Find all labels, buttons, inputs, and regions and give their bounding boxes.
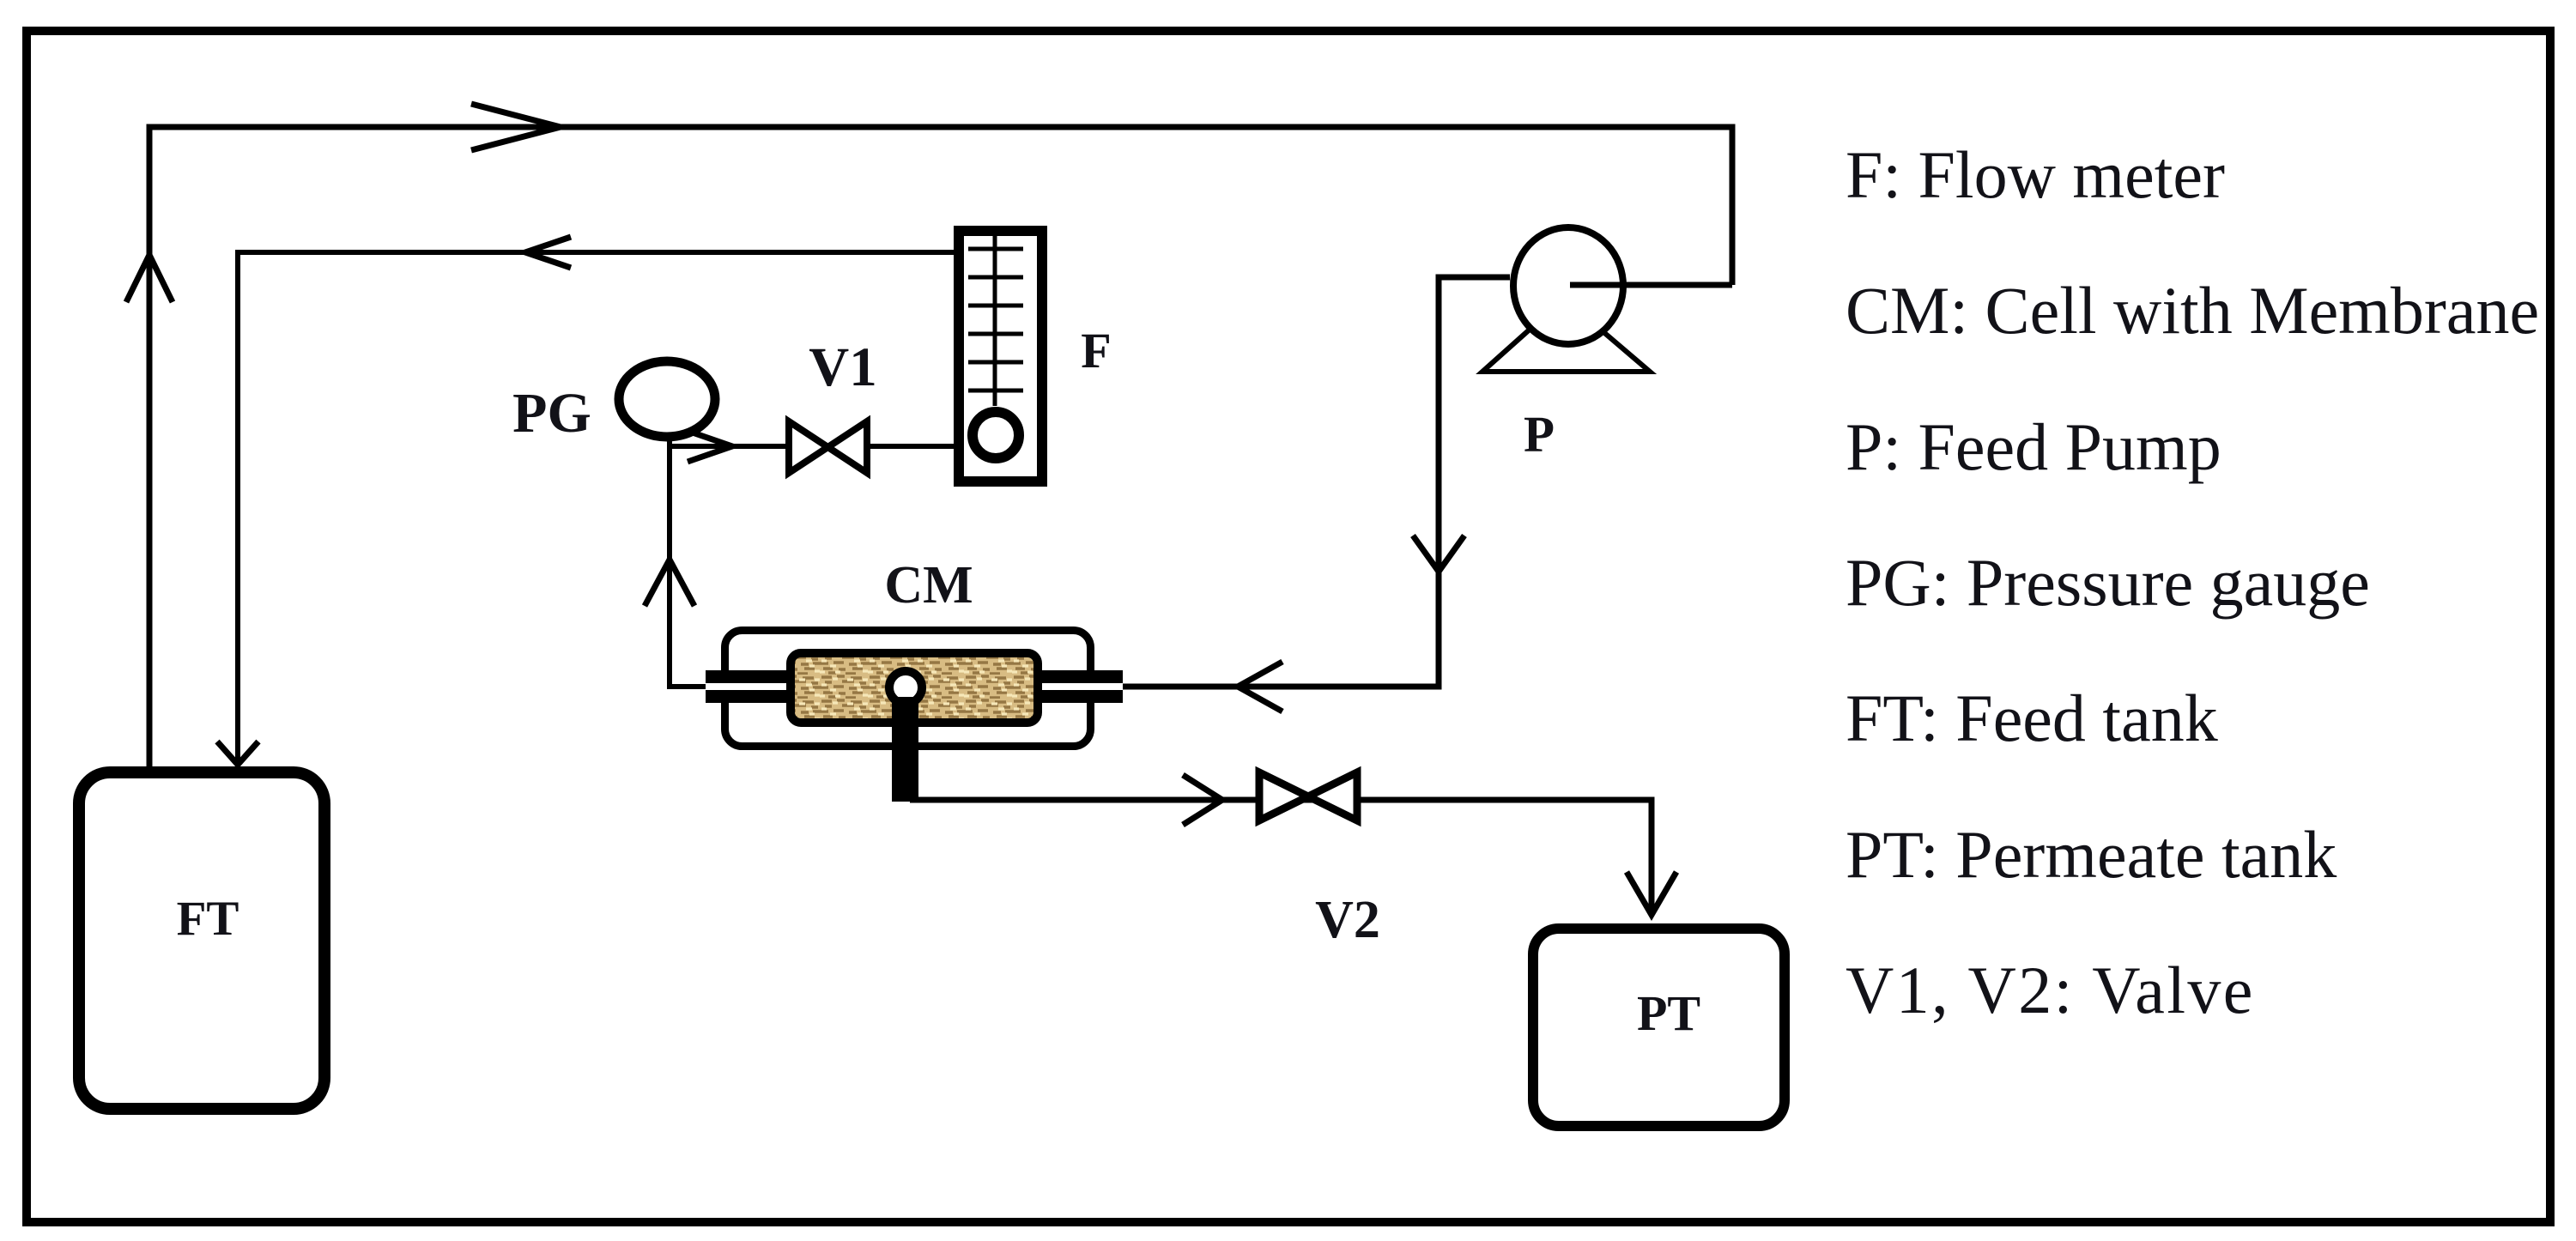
svg-text:PG: Pressure gauge: PG: Pressure gauge — [1846, 545, 2370, 620]
svg-text:V1, V2: Valve: V1, V2: Valve — [1846, 953, 2255, 1027]
flow meter F body — [959, 231, 1042, 481]
flow meter float circle — [973, 412, 1019, 458]
arrow down into PT — [1627, 872, 1676, 915]
svg-text:FT: FT — [177, 892, 239, 946]
svg-text:CM: Cell with Membrane: CM: Cell with Membrane — [1846, 273, 2539, 348]
permeate tank PT — [1533, 929, 1785, 1126]
valve V2 — [1259, 772, 1357, 820]
arrow up on PG branch — [645, 560, 694, 606]
svg-text:PT: PT — [1637, 985, 1700, 1041]
arrow right on top line — [471, 104, 561, 150]
pump base — [1482, 329, 1650, 372]
wire: FT up to top line, right, down to pump inlet corner — [149, 127, 1732, 770]
flow meter ticks — [968, 249, 1023, 390]
arrow up on left vertical — [126, 255, 173, 302]
pressure gauge PG circle — [619, 361, 715, 437]
svg-text:P: P — [1524, 406, 1555, 463]
svg-text:V2: V2 — [1315, 891, 1380, 949]
svg-text:FT: Feed tank: FT: Feed tank — [1846, 681, 2218, 755]
pump P circle — [1513, 227, 1623, 344]
CM membrane — [791, 653, 1038, 723]
CM right port — [1042, 670, 1123, 703]
wire: return line F to FT — [238, 252, 954, 766]
svg-text:V1: V1 — [809, 336, 876, 398]
flow meter scale line — [993, 236, 997, 406]
arrow down into FT — [217, 742, 258, 765]
wire: pump stub — [1570, 282, 1732, 288]
valve V1 — [789, 421, 867, 473]
svg-text:F: Flow meter: F: Flow meter — [1846, 137, 2225, 212]
arrow left on return line — [525, 237, 571, 268]
wire: pump outlet left — [1123, 277, 1510, 687]
arrow down to CM feed — [1413, 536, 1464, 572]
svg-text:CM: CM — [884, 556, 973, 614]
feed tank FT — [79, 772, 324, 1109]
arrow left into CM — [1238, 662, 1282, 711]
svg-text:PT: Permeate tank: PT: Permeate tank — [1846, 817, 2337, 892]
svg-text:F: F — [1081, 323, 1111, 378]
wire: junction to flow meter via V1 — [670, 444, 954, 449]
CM permeate pipe — [892, 697, 918, 802]
arrow right before V2 — [1183, 775, 1222, 825]
svg-text:P: Feed Pump: P: Feed Pump — [1846, 409, 2221, 484]
wire: permeate to PT via V2 — [910, 800, 1652, 915]
svg-text:PG: PG — [512, 382, 591, 445]
CM center hole — [889, 671, 922, 704]
CM left port — [706, 670, 786, 703]
cell with membrane CM outer shell — [725, 631, 1091, 747]
wire: CM left port up to PG/V1 junction — [670, 433, 707, 687]
arrow right after PG — [688, 431, 732, 462]
